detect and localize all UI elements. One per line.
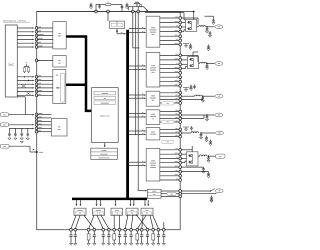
text buck1 A row	[150, 29, 157, 32]
wire buck1 A out FB	[160, 40, 179, 42]
arrow rail to driver	[100, 200, 102, 204]
block driver D2	[93, 208, 105, 215]
pin bottom 4	[93, 228, 96, 231]
capacitor C26	[211, 196, 213, 198]
wire buck1 A out DRVH	[160, 22, 179, 24]
arrow bus feed	[116, 29, 118, 34]
wire buck3 C out VO3	[160, 95, 179, 97]
wire VBAT upper line	[128, 6, 143, 8]
wire buck6 F in	[129, 165, 145, 167]
wire SD3 SoC bus	[17, 87, 33, 89]
capacitor Cb3	[93, 231, 95, 235]
wire pin to seq	[37, 80, 53, 82]
wire buck6 F out FB	[160, 179, 179, 181]
text buck2 B row	[150, 67, 156, 70]
wire ch4 out	[181, 114, 214, 116]
block driver D4	[126, 208, 138, 215]
wire buck1 A out COMP	[160, 44, 179, 46]
block buck1 A	[146, 16, 160, 47]
capacitor C5 inline	[140, 5, 142, 7]
wire buck5 E in	[129, 130, 145, 132]
capacitor C1b input	[99, 4, 101, 6]
wire stub node4	[137, 7, 139, 11]
svg-text:Speed (battery + 48 VDC): Speed (battery + 48 VDC)	[3, 19, 26, 22]
arrow rail to driver	[130, 200, 132, 204]
wire d1 down a	[71, 215, 76, 228]
pin bottom 16	[162, 228, 165, 231]
wire gate4	[181, 68, 185, 70]
subblock RAM	[94, 101, 116, 105]
wire d5 down b	[150, 215, 153, 228]
wire buck2 B out LGND	[160, 85, 179, 87]
arrow rail to driver	[147, 200, 149, 204]
pin bottom 3	[87, 228, 90, 231]
wire pin to ctrl	[37, 35, 53, 37]
text buck6 F row	[150, 164, 155, 167]
wire feed V3	[137, 12, 139, 191]
mosfets Q5 Q6	[187, 152, 199, 166]
wire vref out	[181, 171, 208, 173]
wire pin to ldo	[37, 127, 52, 129]
wire ch1 to load	[207, 26, 215, 28]
wire d3 down a	[113, 215, 115, 228]
capacitor C12	[209, 31, 211, 33]
node on rail 1	[95, 10, 98, 13]
text buck6 F row	[151, 159, 155, 162]
wire SDA SoC to U1	[17, 31, 33, 33]
wire bst1	[181, 17, 198, 19]
capacitor Cb4	[102, 231, 104, 235]
wire pin to ctrl	[37, 27, 53, 29]
PMIC U1 boundary	[37, 12, 181, 230]
load VDD CPU	[215, 25, 223, 29]
wire bst2	[181, 54, 198, 56]
wire vtt out	[181, 166, 203, 168]
capacitor C19	[191, 126, 193, 128]
wire buck2 B out DRVL	[160, 68, 179, 70]
block memory ctrl U1d	[51, 119, 67, 136]
wire pin to seq	[37, 83, 53, 85]
text buck3 C row	[151, 94, 155, 97]
wire drain feed ch1	[193, 12, 195, 20]
wire top filter	[95, 5, 97, 12]
block input switch U1e	[110, 21, 125, 28]
block buck2 B	[146, 52, 160, 87]
block digital core	[92, 88, 119, 143]
node on rail 5	[193, 11, 195, 13]
capacitor Cb14	[158, 231, 160, 235]
capacitor C14	[206, 64, 208, 66]
pin bottom 5	[102, 228, 105, 231]
inductor L6	[200, 155, 208, 156]
wire pin164 up	[163, 222, 165, 229]
load VDD GPU	[215, 62, 223, 66]
text buck4 D row	[150, 115, 156, 118]
text buck2 B row	[151, 71, 154, 74]
wire buck6 F out DRVH	[160, 153, 179, 155]
pin bottom 6	[108, 228, 111, 231]
wire pin to ldo	[37, 117, 52, 119]
text buck5 E row	[150, 133, 156, 136]
label buck5 E type	[162, 140, 175, 143]
wire crossover X1	[21, 84, 26, 88]
wire buck4 D out GND	[160, 121, 179, 123]
inductor L2	[199, 26, 206, 27]
wire SoC bottom to VIO rail	[17, 96, 25, 98]
wire CLK32K SoC to U1	[17, 35, 33, 37]
text buck2 B row	[151, 64, 155, 67]
block driver D3	[111, 208, 123, 215]
wire buck2 B out FB	[160, 76, 179, 78]
capacitor C25	[208, 172, 210, 174]
wire pin to ldo	[37, 131, 52, 133]
pin bottom 8	[118, 228, 121, 231]
wire ch1 top aux	[205, 15, 214, 17]
wire VREF to pin	[9, 124, 34, 126]
wire ch3 fb	[181, 99, 203, 101]
block buck4 D	[146, 110, 160, 125]
capacitor C13	[190, 44, 192, 46]
pin VREF	[35, 117, 38, 120]
wire audio out LRCK	[161, 195, 179, 197]
pin VDDA	[35, 127, 38, 130]
wire ch5 to load	[201, 132, 215, 134]
wire SD0 SoC bus	[17, 76, 33, 78]
wire gate2	[181, 31, 184, 33]
wire pin to seq	[37, 91, 53, 93]
wire buck2 B in	[129, 65, 145, 67]
pin bottom 11	[136, 228, 139, 231]
wire pin to seq	[37, 94, 53, 96]
load V IO	[215, 94, 223, 98]
block buck6 F	[146, 149, 160, 182]
load V 3V3	[216, 131, 224, 135]
pin AGND	[35, 124, 38, 127]
node on rail 4	[137, 10, 140, 13]
junction ch2	[206, 63, 208, 65]
capacitor C17	[202, 96, 204, 98]
wire buck3 C out SW3	[160, 92, 179, 94]
wire pin to ctrl	[37, 46, 53, 48]
capacitor C11	[213, 18, 215, 20]
wire RESET SoC to U1	[17, 38, 33, 40]
wire VIO to pin	[9, 114, 34, 116]
wire pin to ldo	[37, 124, 52, 126]
wire d4 down b	[131, 215, 133, 229]
label buck4 D type	[162, 120, 175, 123]
wire d5 down a	[142, 215, 143, 228]
block thermal monitor	[91, 148, 118, 159]
resistor R2 pullup	[28, 66, 30, 67]
capacitor C22	[210, 140, 212, 142]
wire buck2 B out BST	[160, 54, 179, 56]
text buck1 A row	[151, 26, 155, 29]
arrow rail to driver	[133, 200, 135, 204]
block buck3 C	[146, 91, 160, 106]
junction ch4	[206, 114, 208, 116]
capacitor Cd1	[8, 128, 10, 132]
wire buck3 C in	[129, 94, 145, 96]
wire d2 down a	[97, 215, 103, 228]
wire audio in	[138, 190, 145, 192]
wire buck1 A out PGND	[160, 35, 179, 37]
wire stub node3	[132, 7, 134, 11]
resistor Rb6	[113, 231, 115, 234]
wire ch4 fb	[181, 118, 204, 120]
wire cap rail	[9, 127, 33, 129]
wire buck2 B out SW	[160, 63, 179, 65]
wire drain rail ch1	[145, 12, 184, 14]
pin bottom 7	[113, 228, 116, 231]
capacitor Cd2	[14, 128, 16, 132]
svg-text:digital core: digital core	[100, 114, 111, 117]
pin bottom 10	[130, 228, 133, 231]
wire buck5 E in	[129, 133, 145, 135]
wire buck1 A out SW	[160, 26, 179, 28]
wire pin to ldo	[37, 113, 52, 115]
wire buck5 E out VO5	[160, 132, 179, 134]
block interface/control U1a	[53, 22, 66, 49]
capacitor Cb0	[70, 231, 72, 235]
arrow rail to driver	[75, 200, 77, 204]
junction ch1	[206, 26, 208, 28]
capacitor Cb9	[130, 231, 132, 235]
wire buck4 D in	[129, 113, 145, 115]
wire GND to edge	[9, 145, 30, 147]
capacitor Cb12	[147, 231, 149, 235]
capacitor C15	[190, 85, 192, 87]
wire pin to ctrl	[37, 42, 53, 44]
resistor Rb13	[152, 231, 154, 234]
wire SCL SoC to U1	[17, 27, 33, 29]
block driver D1	[74, 208, 86, 215]
wire drain feed ch2	[193, 19, 195, 21]
power trace ctrl to bus	[66, 37, 91, 111]
wire d5 down c	[153, 215, 159, 228]
wire PWRON SoC to U1	[17, 46, 33, 48]
wire PWM SoC bus	[17, 94, 33, 96]
wire buck1 A in	[129, 31, 145, 33]
arrow rail to driver	[79, 200, 81, 204]
pin bottom 12	[140, 228, 143, 231]
block audio PLL	[147, 189, 161, 198]
pin VDDIO	[35, 113, 38, 116]
junction Csys	[36, 151, 38, 153]
arrow core to monitor	[104, 143, 106, 146]
wire rail to switch	[107, 12, 109, 22]
wire buck2 B out COMP	[160, 81, 179, 83]
pin bottom 13	[146, 228, 149, 231]
wire buck3 C out FB3	[160, 99, 179, 101]
wire SW node ch6	[198, 155, 200, 157]
arrow rail to driver	[115, 200, 117, 204]
text buck2 B row	[150, 69, 156, 72]
capacitor C10	[206, 27, 208, 29]
text buck4 D row	[152, 117, 154, 120]
wire d2 down b	[101, 215, 109, 228]
junction pullup B	[28, 80, 29, 81]
block buck5 E	[146, 128, 160, 140]
ground decoupling	[20, 141, 23, 143]
wire GPIO SoC bus	[17, 91, 33, 93]
net label GND	[1, 144, 10, 148]
subblock CPU	[94, 91, 116, 95]
text buck3 C row	[152, 99, 154, 102]
capacitor Cb8	[124, 231, 126, 235]
wire buck3 C out GND	[160, 102, 179, 104]
subblock DSP	[94, 96, 116, 99]
inductor L5	[191, 132, 199, 133]
inductor L3	[200, 62, 207, 63]
capacitor C2	[121, 5, 123, 7]
load V AUX	[215, 113, 223, 117]
wire sw1	[181, 26, 185, 28]
mosfets Q1 Q2	[186, 20, 197, 32]
wire pin to ldo	[37, 120, 52, 122]
label audio net	[167, 192, 176, 195]
text buck5 E row	[151, 131, 155, 134]
capacitor C3	[126, 3, 128, 5]
wire crossover X2	[26, 92, 31, 96]
junction ch3	[202, 95, 204, 97]
ground cluster A	[184, 46, 187, 48]
wire sw6	[181, 157, 186, 159]
wire VSYS top rail	[37, 11, 194, 13]
pin bottom 1	[70, 228, 73, 231]
wire pin to ctrl	[37, 31, 53, 33]
switch to rail	[144, 7, 148, 11]
wire buck4 D out FB4	[160, 118, 179, 120]
capacitor Cd3	[21, 128, 23, 132]
wire audio out MCLK	[161, 190, 179, 192]
text buck6 F row	[150, 166, 155, 169]
pin XIN	[35, 59, 38, 62]
pin bottom 2	[74, 228, 77, 231]
wire buck4 D in	[129, 116, 145, 118]
wire crossing bottom X1	[84, 215, 94, 228]
wire d4 down a	[125, 215, 128, 229]
wire buck6 F in	[129, 161, 145, 163]
wire i2s line2	[181, 193, 216, 195]
svg-text:SoC: SoC	[8, 62, 15, 66]
capacitor C24	[203, 167, 205, 169]
wire buck5 E out SW5	[160, 129, 179, 131]
pin AVDD	[35, 120, 38, 123]
wire crossing bottom X2	[136, 215, 148, 229]
wire gate5	[181, 153, 186, 155]
wire feed V1	[132, 12, 134, 48]
wire drain ch2 top	[192, 52, 194, 57]
mosfets Q3 Q4	[188, 57, 199, 69]
net label VIO	[1, 113, 9, 117]
text buck1 A row	[150, 31, 156, 34]
wire buck6 F out VREF	[160, 175, 179, 177]
wire buck6 F out VTT	[160, 171, 179, 173]
power flag	[136, 4, 138, 7]
ground audio	[210, 201, 213, 203]
capacitor C12b	[208, 45, 210, 47]
capacitor C20	[200, 133, 202, 135]
wire pin to ctrl	[37, 38, 53, 40]
resistor Rb2	[88, 231, 90, 234]
inductor L4	[195, 95, 202, 96]
resistor Rb10	[136, 231, 138, 234]
wire feed V2	[135, 12, 137, 136]
net label VREF	[1, 123, 9, 127]
wire drain feed ch6	[191, 146, 193, 152]
capacitor C16	[194, 85, 196, 87]
wire buck6 F out PGND	[160, 166, 179, 168]
ground cluster C	[184, 129, 187, 131]
power bus main vertical	[126, 30, 129, 200]
wire SD2 SoC bus	[17, 83, 33, 85]
wire buck1 A in	[129, 28, 145, 30]
power bus bottom horizontal	[72, 198, 147, 201]
wire ch5 out	[181, 132, 191, 134]
wire SD1 SoC bus	[17, 80, 33, 82]
arrow rail to driver	[144, 200, 146, 204]
junction ch5	[200, 132, 202, 134]
wire buck2 B out PGND	[160, 72, 179, 74]
wire sw2	[181, 63, 187, 65]
wire ch6 to load	[209, 155, 216, 157]
capacitor Cb1	[74, 231, 76, 235]
wire buck2 B in	[129, 68, 145, 70]
label buck3 C type	[162, 102, 175, 105]
wire gate1	[181, 22, 185, 24]
wire buck6 F out SW	[160, 157, 179, 159]
wire buck5 E out FB5	[160, 136, 179, 138]
wire buck4 D out VO4	[160, 114, 179, 116]
wire IRQ SoC to U1	[17, 42, 33, 44]
wire gate6	[181, 162, 185, 164]
node on rail 3	[131, 10, 134, 13]
wire gate3	[181, 59, 187, 61]
junction pullup A	[24, 76, 25, 77]
text buck3 C row	[150, 97, 156, 100]
wire ch2 to load	[207, 63, 215, 65]
wire buck4 D out SW4	[160, 111, 179, 113]
inductor L1 filter	[105, 3, 111, 6]
wire ch3 out	[181, 95, 194, 97]
pin VSS	[35, 130, 38, 133]
wire buck1 A out BST	[160, 17, 179, 19]
SoC block	[5, 25, 17, 97]
capacitor Cd4	[27, 128, 29, 132]
wire ch3 to load	[203, 95, 215, 97]
capacitor C1 input	[90, 3, 92, 5]
wire pin to seq	[37, 87, 53, 89]
pin bottom 15	[157, 228, 160, 231]
text buck4 D row	[151, 113, 155, 116]
wire filter out	[111, 4, 122, 6]
net label VDDQ	[216, 154, 226, 158]
switch S1	[211, 189, 215, 191]
capacitor C18	[206, 115, 208, 117]
wire d3 down b	[119, 215, 121, 228]
capacitor C4 stub	[127, 7, 129, 11]
wire buck6 F out DRVL	[160, 162, 179, 164]
wire i2s line	[181, 190, 210, 192]
wire buck3 C in	[129, 97, 145, 99]
wire audio out BCLK	[161, 193, 167, 195]
text buck6 F row	[150, 162, 156, 165]
wire buck2 B out DRVH	[160, 59, 179, 61]
capacitor Cb7	[119, 231, 121, 235]
wire SW node ch1	[197, 26, 199, 28]
capacitor C21	[206, 136, 208, 138]
wire switch out	[116, 28, 118, 30]
